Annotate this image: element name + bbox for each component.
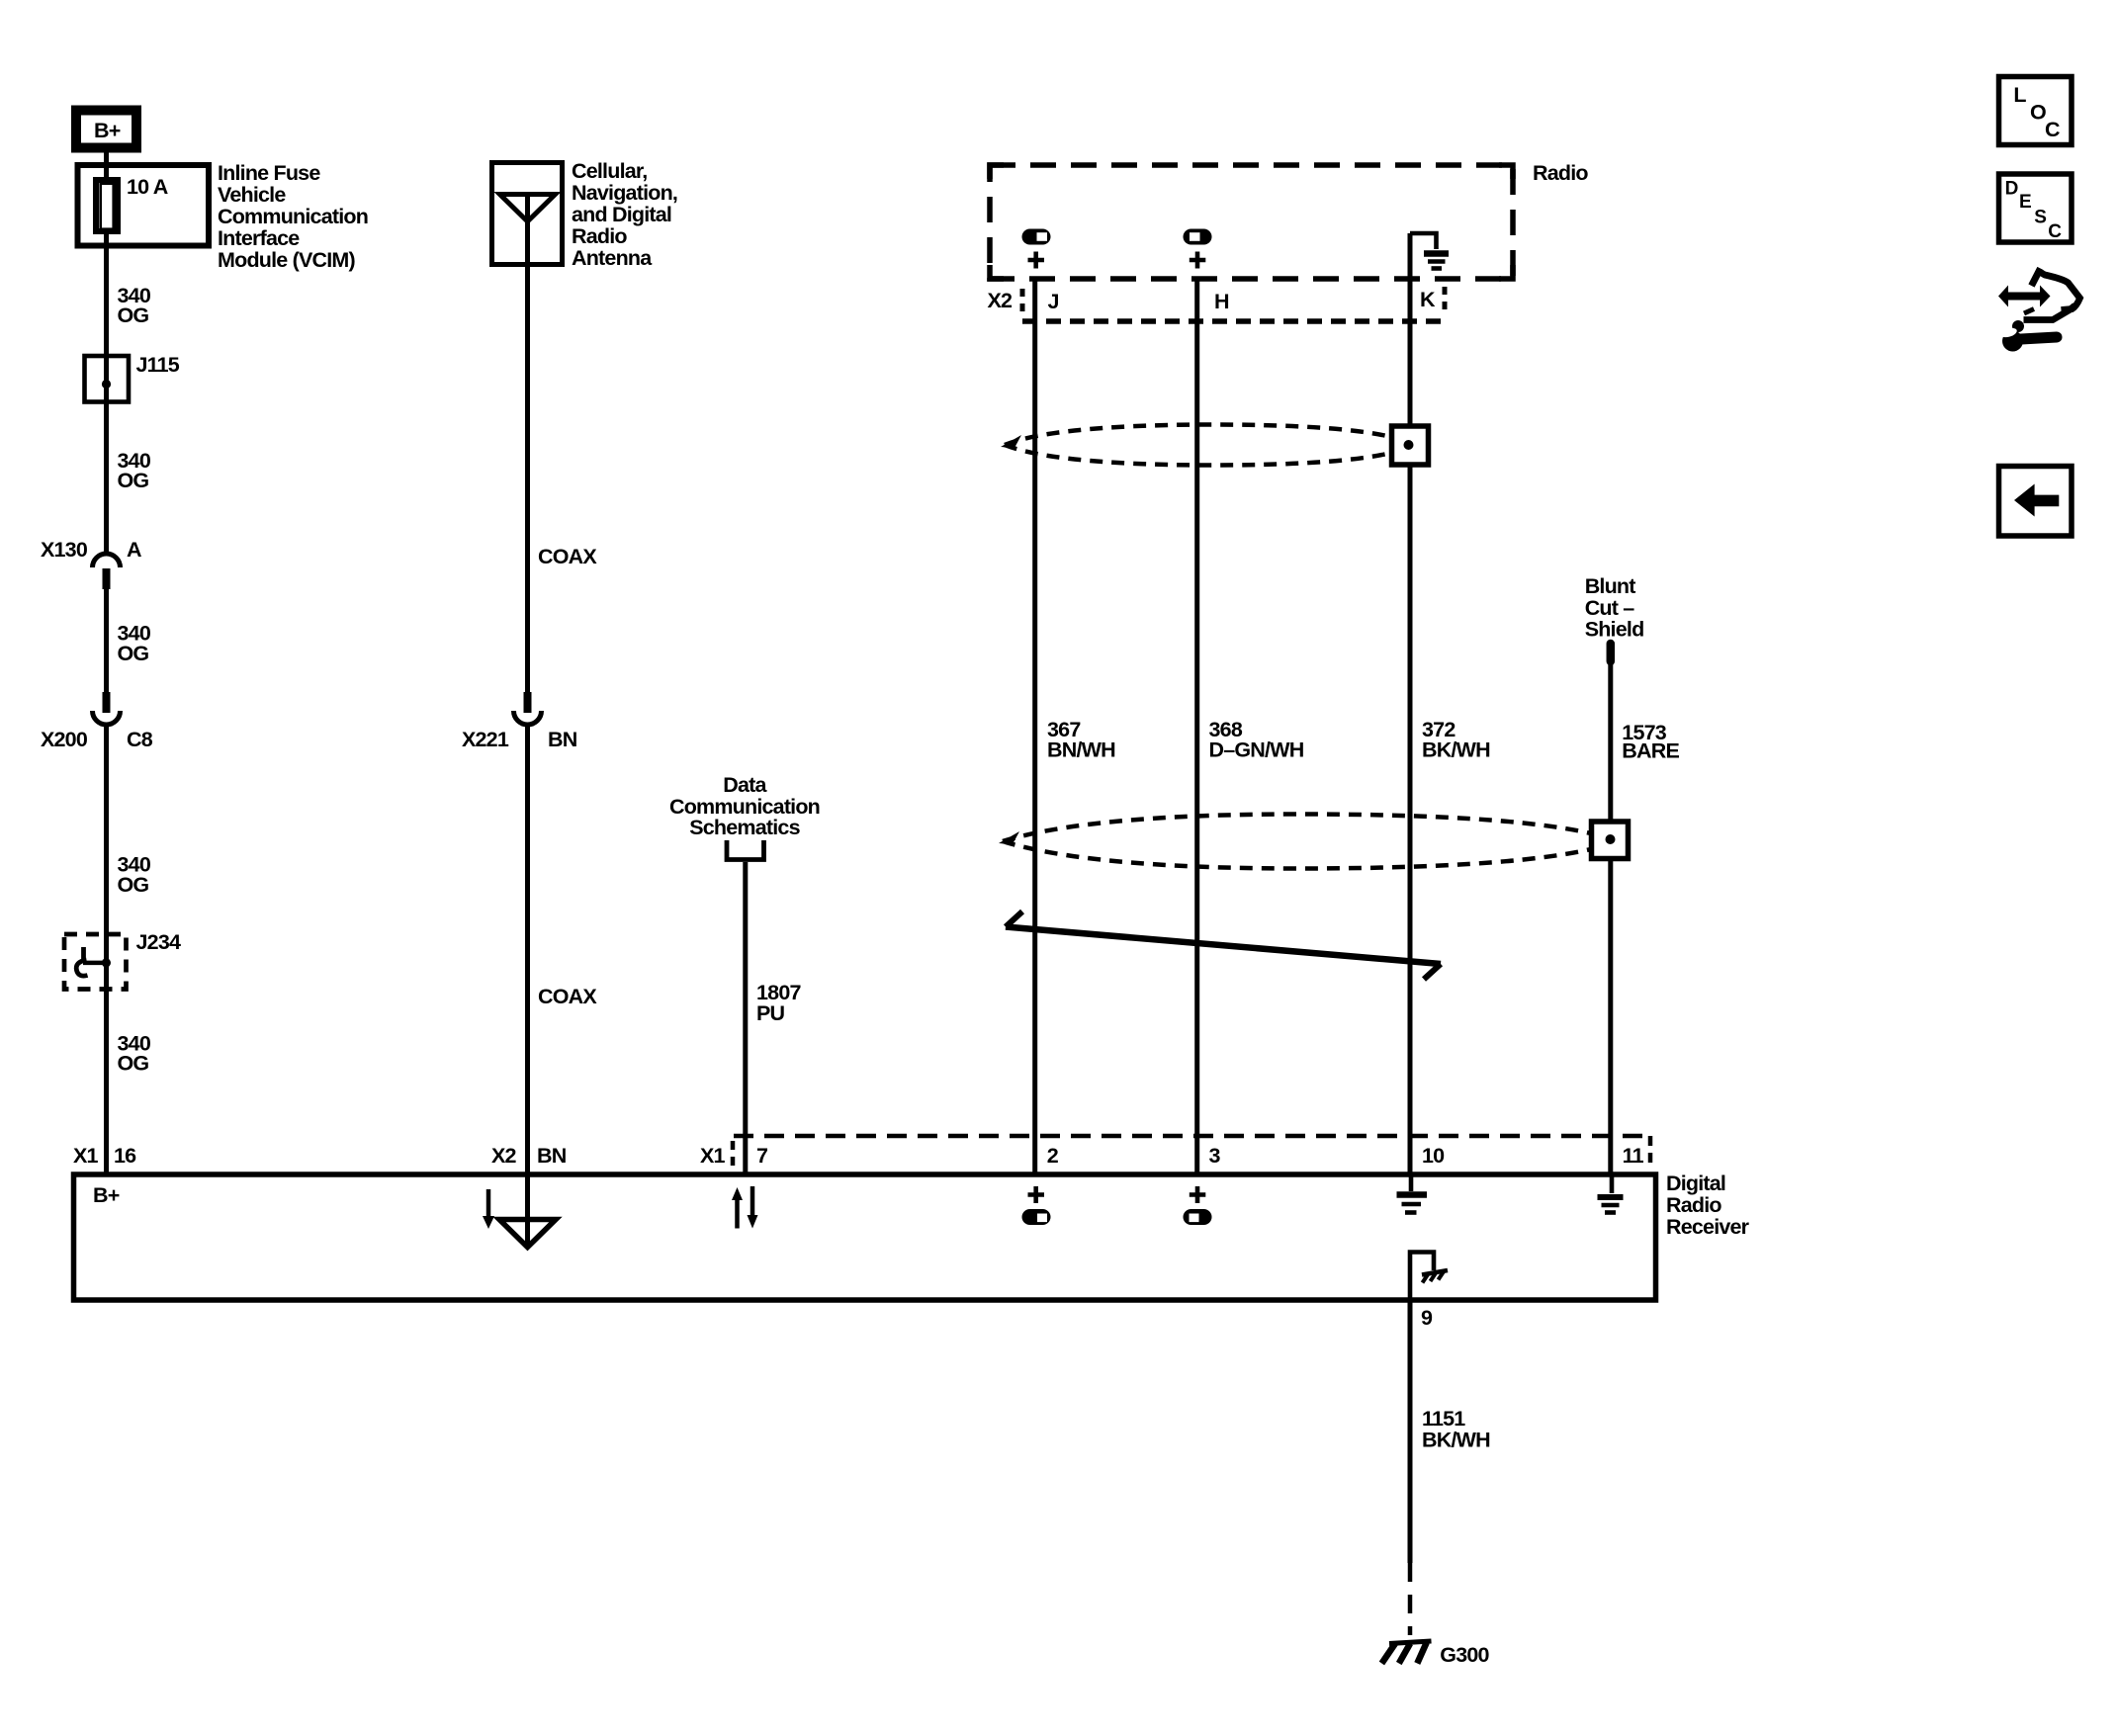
svg-text:PU: PU (756, 1001, 785, 1025)
radio speaker icon pin H (1184, 229, 1212, 245)
off-page bracket (727, 840, 764, 860)
wire 340 OG X200 to J234 (104, 725, 109, 1174)
svg-text:D: D (2005, 179, 2019, 200)
svg-text:Shield: Shield (1585, 618, 1644, 642)
wire 340 OG J115 to X130 (104, 400, 109, 553)
svg-text:D–GN/WH: D–GN/WH (1209, 738, 1304, 762)
svg-text:Interface: Interface (218, 226, 300, 250)
wire 1573 BARE (blunt cut to receiver 11) (1608, 661, 1613, 1174)
ground symbol at receiver pin 10 (1409, 1174, 1414, 1191)
cellular navigation antenna box (492, 163, 563, 265)
plus at receiver pin 2 (1033, 1186, 1038, 1203)
fuse F 10A element (104, 168, 109, 180)
splice J115 (85, 356, 130, 402)
svg-text:Cut –: Cut – (1585, 596, 1635, 620)
svg-text:BK/WH: BK/WH (1422, 1429, 1490, 1452)
svg-text:Blunt: Blunt (1585, 574, 1636, 598)
wire 368 D-GN/WH (pin H to receiver 3) (1194, 279, 1199, 1174)
speaker icon at receiver pin 2 (1022, 1209, 1051, 1225)
svg-text:COAX: COAX (538, 545, 597, 568)
svg-text:J234: J234 (136, 930, 181, 954)
svg-text:OG: OG (118, 469, 149, 492)
svg-text:11: 11 (1623, 1144, 1644, 1168)
receiver serial data arrows at pin 7 (735, 1199, 740, 1229)
radio internal ground at pin K (1410, 233, 1437, 249)
icon DESC box (1999, 174, 2073, 242)
svg-text:X1: X1 (700, 1144, 726, 1168)
svg-text:Radio: Radio (572, 224, 627, 248)
svg-text:Module (VCIM): Module (VCIM) (218, 248, 356, 272)
svg-text:G300: G300 (1440, 1643, 1489, 1667)
svg-text:K: K (1420, 288, 1436, 311)
plus at pin J (1033, 252, 1038, 269)
svg-text:Communication: Communication (218, 205, 368, 228)
power symbol B+ (76, 111, 136, 148)
svg-text:Digital: Digital (1666, 1172, 1725, 1195)
svg-text:10 A: 10 A (127, 175, 168, 199)
svg-text:BK/WH: BK/WH (1422, 738, 1490, 762)
icon LOC box (1999, 77, 2073, 145)
radio dashed box (990, 165, 1513, 279)
shield ellipse upper (1005, 424, 1391, 445)
svg-text:9: 9 (1421, 1306, 1433, 1330)
svg-text:OG: OG (118, 873, 149, 897)
svg-text:COAX: COAX (538, 985, 597, 1008)
svg-text:OG: OG (118, 642, 149, 665)
svg-text:C: C (2045, 118, 2060, 141)
svg-text:Receiver: Receiver (1666, 1215, 1750, 1239)
svg-text:B+: B+ (94, 119, 121, 142)
plus at pin H (1195, 252, 1200, 269)
svg-text:X2: X2 (988, 289, 1014, 312)
svg-text:X2: X2 (491, 1144, 517, 1168)
shield ellipse lower (1003, 814, 1591, 841)
svg-text:X130: X130 (41, 538, 88, 562)
svg-text:C8: C8 (127, 728, 153, 751)
wire B+ to fuse (104, 148, 109, 168)
svg-text:Cellular,: Cellular, (572, 159, 647, 183)
icon back arrow box (1999, 467, 2073, 537)
svg-text:A: A (127, 538, 141, 562)
svg-text:3: 3 (1209, 1144, 1221, 1168)
plus at receiver pin 3 (1195, 1186, 1200, 1203)
svg-text:BARE: BARE (1622, 739, 1679, 763)
digital radio receiver box (74, 1174, 1656, 1300)
svg-text:E: E (2019, 192, 2032, 213)
wire 340 OG fuse to J115 (104, 242, 109, 358)
no-connection crossing arrow (1006, 927, 1441, 965)
svg-text:Radio: Radio (1533, 161, 1588, 185)
svg-text:Vehicle: Vehicle (218, 183, 286, 207)
svg-text:16: 16 (114, 1144, 136, 1168)
svg-text:OG: OG (118, 304, 149, 327)
svg-text:7: 7 (756, 1144, 768, 1168)
receiver X1 connector dashed row (734, 1134, 1650, 1139)
svg-text:2: 2 (1047, 1144, 1059, 1168)
svg-text:J: J (1048, 290, 1059, 313)
connector X200 pin C8 (male pin + female cup) (103, 692, 111, 713)
connector X221 pin BN (male pin + female cup) (524, 692, 532, 713)
shield termination box on K wire (1392, 426, 1429, 465)
svg-text:Navigation,: Navigation, (572, 181, 677, 205)
antenna symbol (500, 195, 556, 222)
icon wiring repair (arrow + connector + wrench) (2032, 269, 2041, 287)
svg-text:H: H (1214, 290, 1229, 313)
speaker icon at receiver pin 3 (1184, 1209, 1212, 1225)
svg-text:Data: Data (723, 773, 767, 797)
splice J234 (dashed box) (64, 934, 127, 990)
ground symbol at receiver pin 11 (1610, 1174, 1615, 1193)
svg-text:X200: X200 (41, 728, 88, 751)
receiver internal chassis ground to pin 9 (1410, 1253, 1434, 1301)
radio speaker icon pin J (1022, 229, 1051, 245)
svg-text:Schematics: Schematics (689, 816, 800, 839)
svg-text:Antenna: Antenna (572, 246, 653, 270)
svg-text:BN/WH: BN/WH (1047, 738, 1115, 762)
svg-text:10: 10 (1422, 1144, 1445, 1168)
svg-text:BN: BN (537, 1144, 567, 1168)
COAX wire antenna to X221 (525, 265, 530, 692)
svg-text:Radio: Radio (1666, 1193, 1721, 1217)
svg-text:and Digital: and Digital (572, 203, 671, 226)
svg-text:1151: 1151 (1422, 1407, 1465, 1431)
receiver antenna symbol at X2 BN (486, 1189, 491, 1217)
inline fuse box (78, 165, 210, 246)
wire 372 BK/WH (pin K to receiver 10) (1408, 233, 1413, 1174)
svg-text:OG: OG (118, 1052, 149, 1076)
wrench (2002, 331, 2023, 352)
COAX wire X221 to receiver X2 BN (525, 725, 530, 1174)
svg-text:Inline Fuse: Inline Fuse (218, 161, 320, 185)
wire 367 BN/WH (pin J to receiver 2) (1032, 279, 1037, 1174)
svg-text:L: L (2013, 83, 2026, 107)
svg-text:X1: X1 (73, 1144, 99, 1168)
ground G300 (1389, 1641, 1432, 1644)
svg-text:B+: B+ (93, 1183, 120, 1207)
svg-text:S: S (2034, 208, 2047, 228)
svg-text:J115: J115 (136, 353, 180, 377)
svg-text:BN: BN (548, 728, 577, 751)
wire 1807 PU (743, 862, 748, 1174)
shield termination box on BARE wire (1592, 822, 1629, 859)
svg-text:X221: X221 (462, 728, 509, 751)
svg-text:O: O (2030, 101, 2046, 125)
svg-text:C: C (2048, 221, 2062, 242)
